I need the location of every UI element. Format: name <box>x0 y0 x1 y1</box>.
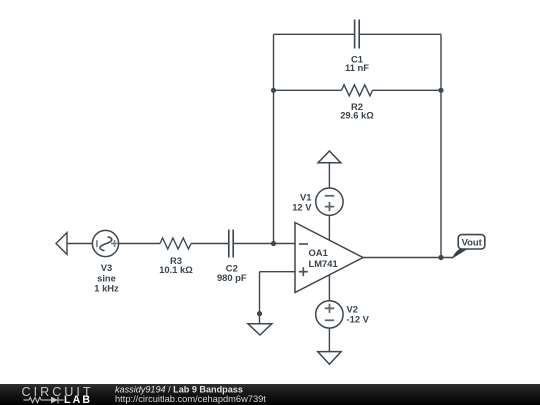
V3 minus mark <box>96 240 98 247</box>
resistor R3 <box>160 238 191 249</box>
svg-text:LM741: LM741 <box>309 258 338 269</box>
Vout flag pointer <box>451 249 467 259</box>
V2 minus mark <box>325 319 334 321</box>
wire noninverting input down to ground <box>259 272 261 324</box>
V2 plus mark <box>325 304 334 313</box>
source V2 <box>316 301 343 328</box>
resistor R2 <box>342 85 373 96</box>
wire V1 triangle to V1 source <box>328 163 330 188</box>
wire feedback top right of C1 <box>359 33 441 35</box>
wire V2 source to negative supply triangle <box>328 328 330 352</box>
wire V3 to R3 <box>119 243 160 245</box>
node junction at inverting input <box>271 241 276 246</box>
wire R3 to C2 <box>191 243 228 245</box>
capacitor C2 <box>229 230 233 258</box>
node junction at output <box>438 255 443 260</box>
svg-text:29.6 kΩ: 29.6 kΩ <box>340 110 374 121</box>
svg-text:V3: V3 <box>101 262 112 273</box>
wire C2 to op-amp inverting input <box>234 243 295 245</box>
wire feedback right vertical <box>440 34 442 257</box>
wire R2 row left lead <box>274 89 342 91</box>
V3 plus mark <box>111 240 118 247</box>
wire noninverting input horizontal <box>260 271 296 273</box>
V2 labels <box>347 303 370 324</box>
V1 labels <box>292 191 312 212</box>
wire op-amp bottom to V2 source <box>328 275 330 301</box>
svg-text:-12 V: -12 V <box>347 313 370 324</box>
op-amp labels <box>309 247 338 269</box>
svg-text:1 kHz: 1 kHz <box>94 283 119 294</box>
svg-text:Vout: Vout <box>462 237 482 248</box>
footer bar <box>0 384 540 405</box>
R3 labels <box>159 255 193 275</box>
logo diode <box>51 397 58 404</box>
svg-text:11 nF: 11 nF <box>345 62 369 73</box>
svg-text:OA1: OA1 <box>309 247 328 258</box>
wire feedback top left of C1 <box>274 33 355 35</box>
svg-text:12 V: 12 V <box>292 202 312 213</box>
source V3 <box>92 230 118 256</box>
input terminal <box>56 233 67 255</box>
logo schematic squiggle <box>24 397 64 404</box>
op-amp inverting mark <box>299 243 308 245</box>
svg-text:10.1 kΩ: 10.1 kΩ <box>159 264 193 275</box>
V1 minus mark <box>325 195 334 197</box>
C1 labels <box>345 53 369 73</box>
wire input terminal to V3 <box>67 243 93 245</box>
R2 labels <box>340 101 374 121</box>
negative supply symbol <box>318 352 341 365</box>
svg-text:980 pF: 980 pF <box>217 272 247 283</box>
wire feedback left vertical <box>273 34 275 243</box>
node junction at feedback right / R2 <box>438 88 443 93</box>
wire op-amp output to Vout flag <box>363 257 453 259</box>
wire V1 source to op-amp top <box>328 215 330 240</box>
Vout flag box <box>458 235 485 249</box>
op-amp OA1 <box>295 223 363 293</box>
source V1 <box>316 188 343 215</box>
ground <box>248 324 272 335</box>
op-amp noninverting mark <box>299 267 308 276</box>
node junction at ground wire <box>257 311 262 316</box>
V1 plus mark <box>325 202 334 211</box>
V3 labels <box>94 262 119 294</box>
wire R2 row right lead <box>373 89 442 91</box>
node junction at feedback left / R2 <box>271 88 276 93</box>
capacitor C1 <box>355 20 360 49</box>
positive supply symbol <box>318 151 341 163</box>
C2 labels <box>217 262 247 283</box>
